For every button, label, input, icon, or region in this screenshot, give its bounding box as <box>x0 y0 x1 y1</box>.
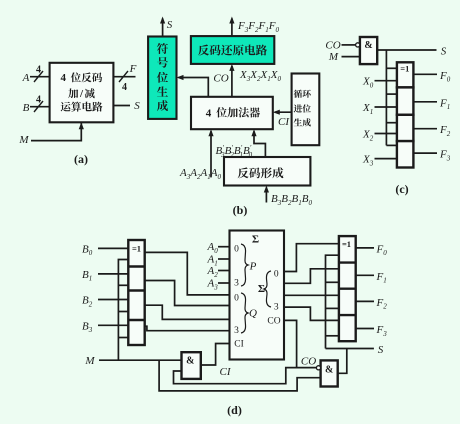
svg-text:4: 4 <box>60 72 66 84</box>
wire CO output from adder to bubble <box>284 320 316 367</box>
wire A2 input <box>218 270 230 272</box>
wire F2 output <box>413 128 437 130</box>
svg-text:CI: CI <box>278 116 290 128</box>
wire S vertical distribution <box>385 50 387 145</box>
svg-text:A: A <box>22 72 30 84</box>
wire input M <box>31 122 81 140</box>
inverter bubble on CO input <box>316 366 320 370</box>
svg-text:B: B <box>23 102 30 114</box>
wire S output of gate <box>338 349 347 374</box>
svg-text:S: S <box>441 46 447 58</box>
wire Sigma3 to xor <box>284 307 339 320</box>
wire F0 output <box>413 73 437 75</box>
and-gate CI generation (M AND CO) <box>182 352 201 379</box>
wire A0 input <box>218 246 230 248</box>
svg-text:F: F <box>129 63 137 75</box>
wire F1 output <box>356 274 374 276</box>
xor stage divider <box>128 319 144 321</box>
svg-text:0: 0 <box>274 269 279 279</box>
wire output F bus <box>113 76 135 78</box>
wire S output <box>377 49 436 51</box>
svg-text:4: 4 <box>36 95 41 106</box>
wire CO input <box>342 44 356 46</box>
wire B3B2B1B0 input arrow <box>265 188 267 203</box>
svg-text:M: M <box>84 355 95 367</box>
wire M input <box>99 359 181 361</box>
bus slash F <box>119 71 128 82</box>
wire F2 output <box>356 300 374 302</box>
wire X2 input <box>375 133 397 135</box>
svg-text:0: 0 <box>234 245 239 255</box>
wire F0 output <box>356 247 374 249</box>
wire xor0 output to adder Q0 <box>145 252 230 295</box>
wire A3 input <box>218 282 230 284</box>
svg-text:3: 3 <box>274 302 279 312</box>
svg-text:M: M <box>328 51 339 63</box>
xor column left (B xor M) <box>128 240 144 345</box>
svg-text:4: 4 <box>122 82 127 93</box>
block ones-complement forming <box>224 157 310 186</box>
wire M distribution vertical <box>118 260 128 361</box>
brace Q group <box>241 293 248 333</box>
wire B2 input <box>98 299 128 301</box>
wire S distribution vertical <box>326 255 339 348</box>
xor gate X3 stage <box>397 141 414 167</box>
wire B3 input <box>98 324 128 326</box>
wire xor3 output to adder Q3 <box>145 326 230 331</box>
xor gate X1 stage <box>397 87 414 114</box>
wire stub S to xor0 <box>386 67 397 69</box>
wire M stub xor3 <box>118 337 128 339</box>
wire xor1 output to adder Q1 <box>145 281 230 306</box>
block U-d 4-bit adder (74283 style) <box>230 231 285 360</box>
wire S stub xor3 <box>326 335 339 337</box>
block end-around carry generation <box>292 74 320 146</box>
wire B0 input <box>98 247 128 249</box>
svg-text:S: S <box>167 19 173 31</box>
svg-text:4: 4 <box>36 65 41 76</box>
wire CO branch to left gate <box>174 368 298 384</box>
svg-text:CO: CO <box>267 317 280 327</box>
svg-text:(c): (c) <box>395 182 408 196</box>
wire CO adder to sign-bit block <box>179 78 209 97</box>
wire M input <box>342 56 360 58</box>
wire B1 input <box>98 273 128 275</box>
svg-text:4: 4 <box>206 107 212 119</box>
wire F1 output <box>413 101 437 103</box>
svg-text:P: P <box>249 261 257 273</box>
wire B-complement bus to adder <box>254 131 265 157</box>
wire M drop to feedback <box>159 360 321 391</box>
wire X0 input <box>375 80 397 82</box>
svg-text:(a): (a) <box>74 152 88 166</box>
wire S output arrow <box>162 19 164 37</box>
block sign-bit generation (cyan) <box>148 37 176 119</box>
xor column right (Sigma xor S -> F) <box>339 236 356 341</box>
svg-text:CO: CO <box>213 73 228 85</box>
wire input A bus <box>30 76 50 78</box>
xor stage divider <box>128 265 144 267</box>
svg-text:B3​B2​B1​B0​: B3​B2​B1​B0​ <box>271 193 312 207</box>
wire X3X2X1X0 adder to restore <box>231 66 233 97</box>
wire CI carry into adder <box>275 111 292 113</box>
svg-text:S: S <box>134 100 140 112</box>
svg-text:S: S <box>378 344 384 356</box>
wire stub S to xor2 <box>386 122 397 124</box>
svg-text:Σ: Σ <box>252 234 259 246</box>
svg-text:=1: =1 <box>400 64 409 74</box>
svg-text:&: & <box>186 356 194 367</box>
wire M stub xor1 <box>118 284 128 286</box>
wire A3A2A1A0 input arrow <box>210 131 212 177</box>
xor stage divider <box>128 289 144 291</box>
svg-text:CO: CO <box>301 356 316 368</box>
brace Sigma outputs <box>264 271 271 307</box>
wire S out to label <box>326 348 374 350</box>
wire F3F2F1F0 output arrow <box>231 19 233 37</box>
xor gate X0 stage <box>397 62 414 87</box>
svg-text:&: & <box>364 40 372 51</box>
svg-text:3: 3 <box>234 279 239 289</box>
wire S stub xor2 <box>326 307 339 309</box>
and-gate U-c with inverted CO input <box>360 37 377 64</box>
svg-text:F3​F2​F1​F0​: F3​F2​F1​F0​ <box>237 20 279 34</box>
wire output S <box>113 105 130 107</box>
svg-text:3: 3 <box>234 326 239 336</box>
block 4-bit adder <box>191 97 273 129</box>
svg-text:M: M <box>18 134 29 146</box>
wire S stub xor1 <box>326 281 339 283</box>
xor gate X2 stage <box>397 115 414 141</box>
wire Sigma2 to xor <box>284 294 339 296</box>
wire F3 output <box>413 152 437 154</box>
svg-text:&: & <box>325 365 333 376</box>
and-gate S generation (notCO AND M) <box>321 360 338 386</box>
wire M stub xor2 <box>118 311 128 313</box>
svg-text:=1: =1 <box>342 239 351 249</box>
xor stage divider <box>339 288 356 290</box>
wire Sigma1 to xor <box>284 269 339 284</box>
svg-text:CI: CI <box>220 366 232 378</box>
svg-text:=1: =1 <box>132 244 141 254</box>
bus slash A <box>34 71 43 82</box>
svg-text:X3​X2​X1​X0​: X3​X2​X1​X0​ <box>239 69 281 83</box>
svg-text:CO: CO <box>325 40 340 52</box>
wire xor2 output to adder Q2 <box>145 305 230 319</box>
svg-text:(b): (b) <box>233 203 248 217</box>
bus slash B <box>34 101 43 112</box>
wire A1 input <box>218 258 230 260</box>
inverter bubble on CO input <box>356 43 360 47</box>
wire input B bus <box>30 106 50 108</box>
wire F3 output <box>356 328 374 330</box>
brace P group <box>241 244 248 286</box>
wire X1 input <box>375 106 397 108</box>
xor stage divider <box>339 261 356 263</box>
xor stage divider <box>339 314 356 316</box>
wire stub S to xor3 <box>386 144 397 146</box>
svg-text:0: 0 <box>234 294 239 304</box>
wire CI from and-gate to adder <box>201 344 230 366</box>
svg-text:(d): (d) <box>227 403 242 417</box>
svg-text:CI: CI <box>234 340 244 350</box>
wire stub S to xor1 <box>386 93 397 95</box>
block complement restore circuit (cyan) <box>191 36 274 64</box>
wire Sigma0 to xor <box>284 244 339 272</box>
svg-text:A3​A2​A1​A0​: A3​A2​A1​A0​ <box>179 167 221 181</box>
wire X3 input <box>375 158 397 160</box>
block U-a: 4-bit ones-complement add/subtract circuit <box>50 63 114 123</box>
svg-text:Q: Q <box>249 308 257 320</box>
